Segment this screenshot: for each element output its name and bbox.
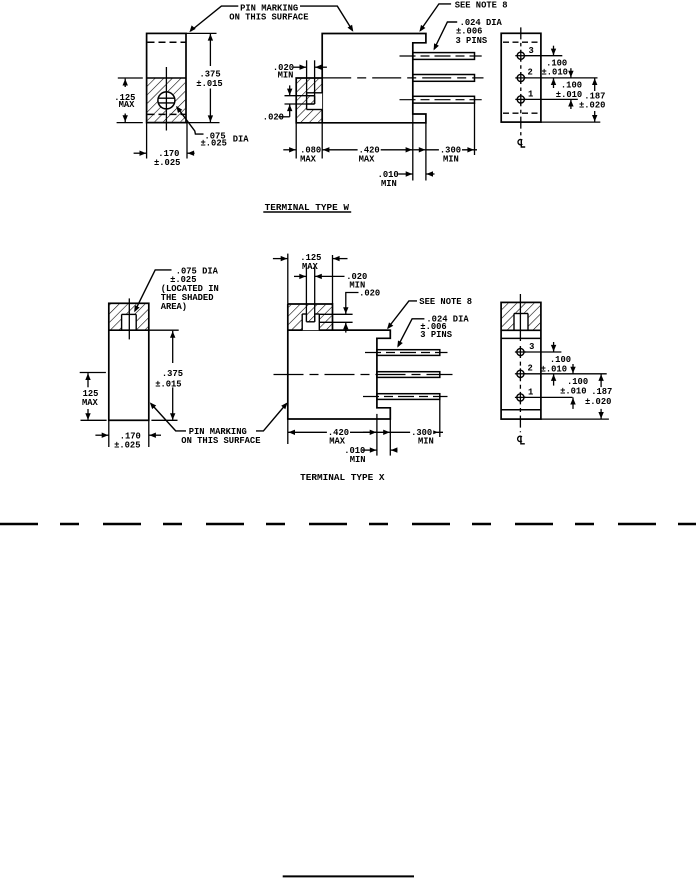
svg-text:±.020: ±.020: [579, 100, 605, 110]
svg-text:3 PINS: 3 PINS: [456, 36, 488, 46]
type X right view vertical centerline: [519, 294, 521, 341]
type X right view band bottom edge: [501, 329, 541, 331]
type X pin 2 dimension line: [524, 373, 607, 375]
svg-text:MAX: MAX: [302, 262, 319, 272]
dim .170 +-.025 X: [108, 420, 110, 447]
type W left view vertical centerline: [165, 67, 167, 131]
svg-text:±.010: ±.010: [556, 90, 582, 100]
svg-text:±.015: ±.015: [155, 379, 181, 389]
dim .100 pins 3-2 X: [553, 342, 555, 352]
dim .100 pins 3-2 W: [553, 46, 555, 56]
svg-text:±.010: ±.010: [560, 387, 586, 397]
type X right view bottom inner line: [501, 409, 541, 411]
svg-text:±.025: ±.025: [201, 139, 227, 149]
svg-text:±.015: ±.015: [196, 79, 222, 89]
type W pin 2 dimension line: [524, 77, 597, 79]
dim .080 MAX: [283, 149, 296, 151]
dim .100 pins 2-1 X: [572, 364, 574, 374]
svg-text:2: 2: [528, 364, 533, 374]
type W right view centerline symbol: [518, 139, 522, 144]
dim .125 MAX top of X boss: [287, 254, 289, 304]
svg-text:MIN: MIN: [278, 70, 294, 80]
type X left view band bottom edge: [109, 329, 149, 331]
dim 125 MAX X: [80, 372, 106, 374]
dim .125 MAX left of left view: [118, 77, 143, 79]
svg-text:.187: .187: [591, 387, 612, 397]
svg-text:SEE NOTE 8: SEE NOTE 8: [455, 0, 508, 10]
pin marking leader left X: [151, 404, 186, 431]
type X right view pin 3 symbol: [517, 348, 524, 355]
type X middle view hatched boss: [289, 305, 332, 330]
svg-text:AREA): AREA): [161, 302, 187, 312]
type W right view vertical centerline: [520, 27, 522, 135]
type X right view centerline symbol: [518, 436, 522, 441]
type W main horizontal centerline: [322, 77, 483, 79]
svg-text:MAX: MAX: [82, 398, 99, 408]
type W right view hidden line bottom: [503, 112, 540, 114]
type W left view body outline: [147, 33, 186, 122]
type W pin 1 dimension line: [524, 98, 577, 100]
dim .187 +-.020 W: [594, 78, 596, 91]
type W right view bottom extension line: [541, 121, 600, 123]
svg-text:MIN: MIN: [443, 154, 459, 164]
svg-text:ON THIS SURFACE: ON THIS SURFACE: [229, 13, 308, 23]
type X right view outline: [501, 302, 541, 419]
type X pin 2: [377, 372, 440, 378]
type W pin 2: [413, 75, 475, 82]
type X right view step line below band: [501, 337, 541, 339]
svg-text:SEE NOTE 8: SEE NOTE 8: [419, 297, 472, 307]
type W left view hidden edge dashed top: [148, 41, 186, 43]
type W right view hidden line top: [503, 41, 540, 43]
type X left view slot edges: [122, 313, 137, 315]
svg-text:TERMINAL TYPE X: TERMINAL TYPE X: [300, 472, 385, 483]
type W left view screw hole circle: [158, 92, 175, 109]
svg-text:3: 3: [529, 46, 534, 56]
dim .375 +-.015 X: [149, 329, 179, 331]
svg-text:MIN: MIN: [381, 179, 397, 189]
type X main horizontal centerline: [274, 374, 453, 376]
type X pin 1 dimension line: [524, 396, 573, 398]
type X boss slot tab hatched: [306, 314, 314, 322]
svg-text:.375: .375: [162, 369, 183, 379]
type X middle view body outline: [288, 304, 391, 419]
type W left view hidden edge dashed bottom: [148, 113, 186, 115]
svg-text:1: 1: [528, 387, 533, 397]
section separator phantom line: [0, 523, 696, 525]
svg-text:±.020: ±.020: [585, 397, 611, 407]
type X right view hatched band: [502, 303, 540, 329]
bottom center line: [283, 875, 414, 877]
svg-text:1: 1: [528, 89, 533, 99]
type W middle view body outline: [296, 34, 426, 123]
type X right view slot white: [514, 314, 528, 331]
dim .020 right of X boss: [319, 313, 352, 315]
type W right view outline: [501, 33, 541, 122]
type W pin 1 centerline: [400, 55, 482, 57]
type W pin 3 centerline: [400, 99, 482, 101]
type W right view pin 3 symbol: [517, 52, 524, 59]
dim .300 MIN W: [414, 149, 426, 151]
dim .420 MAX X: [288, 431, 377, 433]
type W right view pin 2 symbol: [517, 74, 524, 81]
svg-text:2: 2: [528, 68, 533, 78]
svg-text:MAX: MAX: [119, 100, 136, 110]
leader .075 dia located text X: [135, 270, 172, 311]
svg-text:±.010: ±.010: [542, 68, 568, 78]
dim extension lines below W middle view: [295, 123, 297, 159]
type W left view hatch band top edge: [147, 77, 186, 79]
svg-text:±.010: ±.010: [541, 364, 567, 374]
type X left view hatched band: [110, 304, 148, 330]
dim .170 +-.025 below left view: [146, 123, 148, 159]
svg-text:MIN: MIN: [350, 455, 366, 465]
dim .375 +-.015 right of left view: [186, 32, 217, 34]
svg-text:MAX: MAX: [300, 154, 317, 164]
type W pin 3: [413, 96, 475, 103]
type X pin 1 centerline: [365, 352, 448, 354]
pin marking leader right X: [256, 404, 287, 431]
dim .020 MIN X: [305, 267, 307, 314]
type X boss slot edges: [301, 314, 303, 330]
type W pin 1: [413, 53, 475, 60]
leader .075 dia: [177, 107, 204, 135]
type X right view pin 2 symbol: [517, 370, 524, 377]
dim .100 pins 2-1 W: [570, 68, 572, 78]
type W boss notch edges: [307, 92, 323, 94]
dim extension lines below X middle view: [287, 419, 289, 444]
svg-text:±.025: ±.025: [114, 441, 140, 451]
svg-text:.020: .020: [359, 288, 380, 298]
svg-text:3 PINS: 3 PINS: [420, 330, 452, 340]
type X boss slot white: [302, 314, 319, 330]
svg-text:.020: .020: [263, 113, 284, 123]
type X pin 3: [377, 394, 440, 400]
type W middle view hatched boss: [297, 79, 322, 122]
type X pin 1: [377, 350, 440, 356]
dim .020 MIN top of boss: [306, 60, 308, 95]
dim .020 left of boss: [285, 95, 315, 97]
pin marking leader right: [300, 6, 353, 30]
dim .187 +-.020 X: [600, 374, 602, 387]
type W boss notch tab hatched: [307, 96, 315, 104]
type W pin 3 dimension line: [524, 55, 562, 57]
type X pin 3 centerline: [363, 396, 448, 398]
svg-text:DIA: DIA: [233, 135, 250, 145]
type X pin 3 dimension line: [524, 351, 561, 353]
svg-text:MIN: MIN: [418, 437, 434, 447]
type W left view screw slot lines: [158, 97, 174, 99]
type W left view hatched band: [147, 78, 185, 122]
type W boss notch white area: [307, 93, 323, 110]
type X right view pin 1 symbol: [517, 394, 524, 401]
svg-text:±.025: ±.025: [154, 158, 180, 168]
type X left view vertical centerline: [128, 298, 130, 339]
type X left view slot white: [122, 314, 137, 330]
type W right view pin 1 symbol: [517, 96, 524, 103]
svg-text:MAX: MAX: [359, 154, 376, 164]
dim .420 MAX W: [322, 149, 413, 151]
svg-text:ON THIS SURFACE: ON THIS SURFACE: [181, 436, 260, 446]
dim .300 MIN X: [363, 431, 390, 433]
type X right view bottom extension line: [541, 418, 609, 420]
pin marking leader left: [191, 6, 239, 31]
type X left view outline: [109, 303, 149, 420]
svg-text:3: 3: [529, 342, 534, 352]
type X right view slot edges: [514, 313, 528, 315]
svg-text:.100: .100: [567, 377, 588, 387]
